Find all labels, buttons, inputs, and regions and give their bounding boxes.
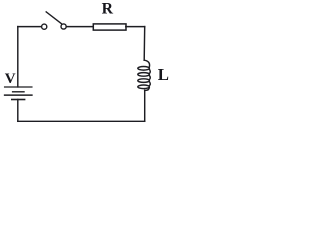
battery V plate 4 short xyxy=(12,99,25,101)
wire right rail top segment xyxy=(143,27,146,61)
inductor L turn 4 xyxy=(138,85,150,89)
switch S contact right xyxy=(61,24,66,29)
switch S contact left xyxy=(42,24,47,29)
wire top rail left segment xyxy=(18,26,41,28)
wire left rail bottom segment xyxy=(17,100,19,122)
inductor L link arc 2-3 xyxy=(148,75,151,79)
svg-text:V: V xyxy=(5,71,16,87)
battery V plate 1 long xyxy=(5,86,32,88)
battery V plate 2 short xyxy=(13,91,24,93)
switch S blade xyxy=(46,12,61,24)
inductor L coil entry arc xyxy=(144,60,149,67)
wire top rail right segment xyxy=(126,26,145,28)
wire bottom rail xyxy=(18,120,145,122)
wire top rail middle segment xyxy=(66,26,92,28)
resistor R body xyxy=(93,24,126,30)
inductor L turn 2 xyxy=(138,73,150,77)
inductor L turn 1 xyxy=(138,67,150,71)
inductor L coil exit arc xyxy=(145,88,150,91)
inductor L link arc 3-4 xyxy=(148,82,151,86)
svg-text:L: L xyxy=(158,65,169,84)
wire right rail bottom segment xyxy=(144,90,146,121)
wire left rail top segment xyxy=(17,27,19,87)
inductor L turn 3 xyxy=(138,79,150,83)
inductor L link arc 1-2 xyxy=(148,69,151,73)
svg-text:R: R xyxy=(102,1,114,18)
battery V plate 3 long xyxy=(5,94,32,96)
